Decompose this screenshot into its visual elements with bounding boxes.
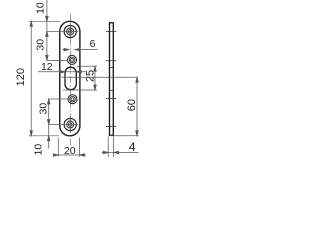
svg-text:4: 4 xyxy=(129,140,136,154)
extension line upper small hole center xyxy=(47,59,68,61)
svg-text:120: 120 xyxy=(15,68,27,86)
svg-text:30: 30 xyxy=(34,39,46,51)
side view hole tick bottom screw xyxy=(106,126,116,128)
dimension 12 slot width xyxy=(38,71,86,74)
svg-text:12: 12 xyxy=(41,61,53,73)
svg-text:10: 10 xyxy=(34,2,46,14)
extension line plate bottom xyxy=(29,135,59,137)
side view hole tick upper small xyxy=(106,60,116,62)
side view slot bottom tick xyxy=(110,89,114,91)
svg-text:30: 30 xyxy=(37,103,49,115)
side view hole tick top screw xyxy=(106,31,116,33)
arrow up to plate bottom xyxy=(47,136,50,141)
extension line lower small hole center xyxy=(49,98,68,100)
dimension 60 side xyxy=(62,77,139,136)
small hole lower xyxy=(68,95,77,104)
arrow down to plate top xyxy=(46,16,49,21)
slot xyxy=(65,67,76,90)
dimension 120 vertical line xyxy=(30,21,33,136)
small hole upper xyxy=(68,55,77,64)
plate outline front view xyxy=(60,21,80,136)
svg-text:25: 25 xyxy=(84,70,96,82)
arrow up to hole center xyxy=(46,32,49,37)
dimension chain left vertical line upper xyxy=(46,0,49,60)
side view bar xyxy=(109,23,114,136)
dimension 20 plate width xyxy=(53,138,86,157)
extension line bottom screw hole center xyxy=(49,124,78,126)
screw hole top xyxy=(62,24,78,40)
svg-text:6: 6 xyxy=(90,38,96,50)
centerline front view xyxy=(70,14,72,147)
svg-text:20: 20 xyxy=(64,145,76,157)
svg-text:60: 60 xyxy=(126,99,138,111)
dimension chain left vertical line lower xyxy=(47,99,50,149)
dimension 25 slot height xyxy=(63,66,97,90)
arrow down to bottom screw hole center xyxy=(47,120,50,125)
arrow down to small hole center xyxy=(46,55,49,60)
extension line plate top xyxy=(29,20,60,22)
side view hole tick lower small xyxy=(106,98,116,100)
extension line top hole center xyxy=(47,31,62,33)
side view slot top tick xyxy=(110,66,114,68)
arrow up to lower small hole center xyxy=(47,99,50,104)
svg-text:10: 10 xyxy=(32,144,44,156)
dimension 4 thickness xyxy=(102,136,139,157)
dimension 6 hole dia xyxy=(63,48,98,51)
screw hole bottom xyxy=(64,117,76,133)
